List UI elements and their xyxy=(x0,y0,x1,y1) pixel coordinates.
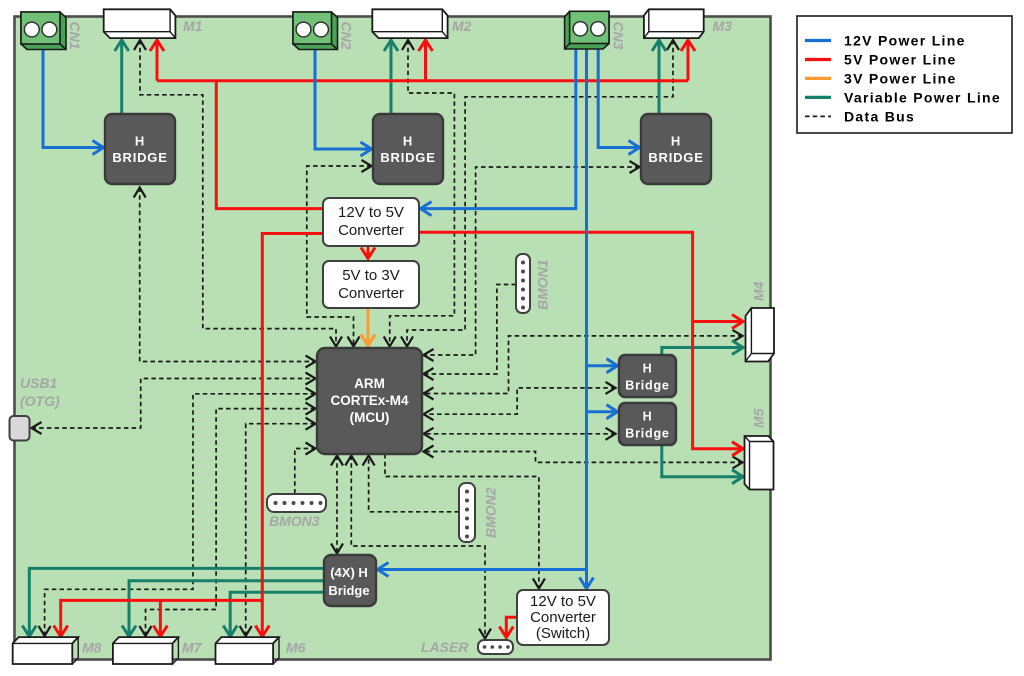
connector CN2 xyxy=(293,12,338,50)
svg-text:M6: M6 xyxy=(286,640,306,656)
svg-text:12V to 5V: 12V to 5V xyxy=(530,593,596,610)
wire blue 12V CN1 to H BRIDGE 1 xyxy=(43,49,104,148)
BMON1 header xyxy=(516,254,530,313)
svg-text:Converter: Converter xyxy=(338,222,404,239)
svg-text:3V Power Line: 3V Power Line xyxy=(844,70,957,86)
4X H Bridge block xyxy=(324,555,376,606)
svg-text:ARM: ARM xyxy=(354,376,385,391)
svg-text:CORTEx-M4: CORTEx-M4 xyxy=(330,393,408,408)
wire red 5V rail to M1 xyxy=(156,40,159,81)
svg-text:H: H xyxy=(643,362,653,376)
svg-text:Bridge: Bridge xyxy=(625,379,669,393)
svg-text:12V to 5V: 12V to 5V xyxy=(338,204,404,221)
wire data bus BMON3 to MCU xyxy=(295,449,316,494)
wire data bus M6 to MCU xyxy=(246,424,316,636)
wire teal variable power H BRIDGE 3 to M3 xyxy=(658,40,661,114)
legend variable power line xyxy=(805,96,831,99)
wire data bus H Bridge small 2 to MCU xyxy=(424,433,616,435)
svg-text:BRIDGE: BRIDGE xyxy=(380,150,435,165)
wire blue 12V branch to H Bridge small 2 xyxy=(587,410,618,413)
wire teal variable power H Bridge small 1 to M4 xyxy=(662,348,743,356)
wire red 5V bottom rail to M8 xyxy=(61,600,263,636)
wire teal variable power 4X H Bridge to M6 xyxy=(230,592,324,636)
wire data bus M1 to MCU xyxy=(140,40,336,347)
svg-text:(4X) H: (4X) H xyxy=(330,565,368,580)
wire blue 12V CN3 to converter xyxy=(421,49,576,209)
svg-text:M7: M7 xyxy=(182,640,203,656)
H Bridge small 1 block xyxy=(619,355,676,397)
legend 3V power line xyxy=(805,77,831,80)
svg-text:H: H xyxy=(643,410,653,424)
wire data bus M2 to MCU xyxy=(390,40,455,347)
H BRIDGE 1 block xyxy=(105,114,175,184)
wire red 5V rail xyxy=(157,79,688,82)
svg-text:(Switch): (Switch) xyxy=(536,625,590,642)
svg-text:M2: M2 xyxy=(452,18,472,34)
svg-text:Variable Power Line: Variable Power Line xyxy=(844,89,1001,105)
MCU ARM CORTEx-M4 block xyxy=(317,348,422,454)
svg-text:Converter: Converter xyxy=(338,285,404,302)
wire data bus M3 to MCU xyxy=(407,40,673,347)
USB1 connector xyxy=(10,416,30,441)
svg-text:BMON3: BMON3 xyxy=(269,513,320,529)
wire data bus USB1 to MCU xyxy=(32,379,316,429)
connector M4 xyxy=(746,308,775,362)
wire blue 12V CN3 main vertical xyxy=(585,49,588,570)
svg-text:M4: M4 xyxy=(751,281,767,301)
wire blue 12V branch to 4X H Bridge xyxy=(378,568,587,571)
wire data bus M7 to MCU xyxy=(146,409,316,636)
svg-text:BMON2: BMON2 xyxy=(483,487,499,538)
legend 5V power line xyxy=(805,58,831,61)
12V to 5V converter box xyxy=(323,198,419,246)
H Bridge small 2 block xyxy=(619,403,676,445)
svg-text:BMON1: BMON1 xyxy=(535,259,551,310)
BMON2 header xyxy=(459,483,475,542)
wire data bus MCU to switch converter xyxy=(385,454,539,589)
svg-text:CN1: CN1 xyxy=(67,22,83,50)
wire blue 12V branch to H Bridge small 1 xyxy=(587,364,618,367)
svg-text:H: H xyxy=(135,134,145,149)
BMON3 header xyxy=(267,494,326,512)
wire data bus H BRIDGE 1 to MCU xyxy=(140,188,316,362)
svg-text:LASER: LASER xyxy=(421,639,469,655)
wire red 5V converter 1 to converter 2 xyxy=(367,247,370,259)
wire red 5V bottom rail to M7 xyxy=(159,600,162,636)
wire data bus BMON1 to MCU xyxy=(424,285,517,375)
svg-text:USB1: USB1 xyxy=(20,375,58,391)
wire blue 12V branch to switch converter xyxy=(585,570,588,589)
LASER header xyxy=(478,640,513,654)
svg-text:M1: M1 xyxy=(183,18,203,34)
connector M1 xyxy=(104,9,176,38)
wire red 5V switch converter to LASER xyxy=(506,617,517,637)
svg-text:Converter: Converter xyxy=(530,609,596,626)
wire red 5V converter to rail riser xyxy=(216,81,322,209)
legend data bus xyxy=(805,115,831,117)
5V to 3V converter box xyxy=(323,261,419,308)
svg-text:Data Bus: Data Bus xyxy=(844,108,915,124)
legend 12V power line xyxy=(805,39,831,42)
wire red 5V converter to M4 M5 xyxy=(420,232,743,448)
wire teal variable power 4X H Bridge to M8 xyxy=(29,568,324,636)
svg-text:CN3: CN3 xyxy=(611,22,627,50)
wire blue 12V CN2 to H BRIDGE 2 xyxy=(315,49,372,149)
connector M2 xyxy=(372,9,447,38)
wire data bus H Bridge small 1 to MCU xyxy=(424,388,616,414)
12V to 5V converter switch box xyxy=(517,590,609,645)
svg-text:CN2: CN2 xyxy=(339,22,355,50)
wire data bus M8 to MCU xyxy=(45,394,316,636)
wire data bus H BRIDGE 3 to MCU xyxy=(424,167,640,355)
wire data bus M4 to MCU xyxy=(424,336,743,394)
wire orange 3V converter to MCU xyxy=(367,309,370,346)
connector M5 xyxy=(745,436,774,490)
svg-text:BRIDGE: BRIDGE xyxy=(112,150,167,165)
svg-text:H: H xyxy=(403,134,413,149)
connector M8 xyxy=(13,637,79,664)
wire teal variable power H Bridge small 2 to M5 xyxy=(662,445,743,477)
wire red 5V branch to M4 xyxy=(693,320,743,323)
svg-text:M8: M8 xyxy=(82,640,102,656)
svg-text:(MCU): (MCU) xyxy=(350,410,390,425)
svg-text:Bridge: Bridge xyxy=(328,583,369,598)
svg-text:M5: M5 xyxy=(751,408,767,428)
wire data bus H BRIDGE 2 to MCU xyxy=(307,166,372,347)
svg-text:5V Power Line: 5V Power Line xyxy=(844,52,957,68)
wire teal variable power H BRIDGE 1 to M1 xyxy=(120,40,123,114)
wire red 5V rail to M3 xyxy=(687,40,690,81)
wire data bus MCU to 4X H Bridge xyxy=(336,456,338,554)
connector CN1 xyxy=(21,12,66,50)
connector M6 xyxy=(216,637,280,664)
wire blue 12V CN3 to H BRIDGE 3 xyxy=(598,49,639,148)
svg-text:5V to 3V: 5V to 3V xyxy=(342,267,400,284)
legend box xyxy=(797,16,1012,133)
connector M7 xyxy=(113,637,178,664)
wire data bus M5 to MCU xyxy=(424,452,743,463)
H BRIDGE 3 block xyxy=(641,114,711,184)
svg-text:BRIDGE: BRIDGE xyxy=(648,150,703,165)
wire red 5V rail to M2 xyxy=(424,40,427,81)
H BRIDGE 2 block xyxy=(373,114,443,184)
svg-text:(OTG): (OTG) xyxy=(20,393,60,409)
svg-text:12V Power Line: 12V Power Line xyxy=(844,33,966,49)
connector M3 xyxy=(644,9,704,38)
connector CN3 xyxy=(565,11,609,49)
wire red 5V converter to bottom motors xyxy=(262,234,322,637)
svg-text:Bridge: Bridge xyxy=(625,427,669,441)
wire teal variable power 4X H Bridge to M7 xyxy=(129,581,324,637)
svg-text:M3: M3 xyxy=(713,18,733,34)
board PCB background xyxy=(15,17,771,660)
wire data bus BMON2 to MCU xyxy=(369,456,459,512)
svg-text:H: H xyxy=(671,134,681,149)
wire data bus MCU to LASER xyxy=(351,456,485,639)
wire teal variable power H BRIDGE 2 to M2 xyxy=(390,40,393,114)
